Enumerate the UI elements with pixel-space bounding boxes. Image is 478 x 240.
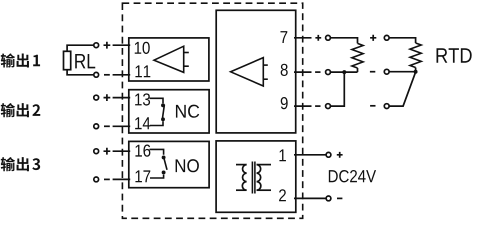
NC contact symbol: [150, 98, 165, 125]
wire RL bottom to output1 - terminal: [67, 70, 94, 75]
label output2 输出2: [1, 103, 41, 117]
wire pin 7 out of module: [294, 37, 312, 39]
terminal output2 -: [94, 124, 99, 129]
polarity - (output1 -): [104, 74, 110, 76]
terminal output3 +: [94, 149, 99, 154]
pin 11: [135, 65, 150, 77]
transformer T1: [236, 162, 271, 194]
RTD element (resistor): [410, 43, 421, 68]
op-amp U1 triangle: [154, 46, 189, 72]
wire pin 8 out of module: [294, 71, 312, 73]
wire pin 1 out of module: [294, 154, 326, 156]
wire output2 + into module: [113, 97, 131, 99]
wire resistor R1 bottom to pin8 row: [357, 68, 359, 72]
pin 16: [135, 145, 150, 157]
wire RTD + terminal to RTD element: [389, 38, 415, 43]
polarity + (output2 +): [104, 94, 111, 101]
polarity + (RTD): [370, 35, 376, 41]
wire terminal7 to resistor R1 top: [331, 38, 358, 44]
wire pin 9 out of module: [294, 105, 312, 107]
terminal pin 8: [326, 70, 331, 75]
wire RL top to output1 + terminal: [67, 45, 94, 51]
polarity + (output1 +): [104, 42, 111, 49]
pin 14: [135, 117, 150, 129]
relay contact NO (pins 16/17): [129, 141, 209, 187]
pin 1: [279, 149, 285, 161]
NO contact symbol: [150, 149, 168, 178]
pin 7: [280, 31, 287, 43]
pin 17: [135, 170, 150, 182]
junction node pin8/pin9 link: [342, 70, 346, 74]
polarity - (output2 -): [104, 125, 110, 127]
wire output1 + into module: [113, 44, 131, 46]
terminal pin 9: [326, 104, 331, 109]
wire output3 - into module: [113, 178, 131, 180]
polarity - (DC24V): [337, 197, 342, 199]
polarity - (pin 8): [315, 71, 320, 73]
wire pin 2 out of module: [294, 197, 326, 199]
terminal output2 +: [94, 95, 99, 100]
wire pin9 branch: [331, 72, 345, 106]
amplifier U2 triangle: [231, 58, 268, 86]
label output1 输出1: [1, 53, 40, 67]
resistor R1 (line resistance): [352, 43, 363, 68]
pin 13: [135, 93, 150, 105]
module outline (dashed isolator boundary): [122, 3, 302, 218]
wire output1 - into module: [113, 74, 131, 76]
terminal output3 -: [94, 177, 99, 182]
polarity + (output3 +): [104, 148, 111, 155]
wire RTD - branch (diagonal): [389, 72, 415, 106]
polarity + (pin 7): [315, 35, 321, 41]
label NC: [176, 105, 199, 118]
terminal RTD +: [384, 35, 389, 40]
label NO: [176, 159, 199, 172]
label output3 输出3: [1, 157, 40, 171]
isolation amplifier block U2 (pins 7/8/9): [216, 10, 296, 133]
terminal DC24V -: [326, 196, 331, 201]
polarity - (output3 -): [104, 178, 110, 180]
op-amp output stage U1 (pins 10/11): [129, 38, 209, 81]
polarity - (pin 9): [315, 105, 320, 107]
terminal RTD -: [384, 104, 389, 109]
label RL: [75, 54, 95, 68]
terminal RTD sense: [384, 69, 389, 74]
terminal output1 +: [94, 43, 99, 48]
relay contact NC (pins 13/14): [129, 90, 209, 133]
label RTD: [436, 48, 471, 62]
wire output2 - into module: [113, 125, 131, 127]
terminal output1 -: [94, 72, 99, 77]
label DC24V: [329, 170, 376, 182]
junction node RTD: [414, 70, 418, 74]
pin 8: [281, 64, 288, 76]
wire output3 + into module: [113, 150, 131, 152]
wire terminal8 to resistor R1: [331, 71, 358, 73]
power supply block (pins 1/2): [216, 141, 296, 212]
resistor RL (load): [64, 51, 71, 69]
polarity + (DC24V): [337, 152, 343, 158]
wire RTD sense terminal to junction: [389, 71, 415, 73]
polarity - (RTD sense): [370, 71, 375, 73]
pin 2: [279, 189, 286, 201]
terminal pin 7: [326, 35, 331, 40]
pin 10: [135, 42, 150, 54]
polarity - (RTD): [370, 105, 375, 107]
pin 9: [281, 97, 288, 109]
terminal DC24V +: [326, 152, 331, 157]
wire RTD element bottom: [415, 68, 417, 72]
